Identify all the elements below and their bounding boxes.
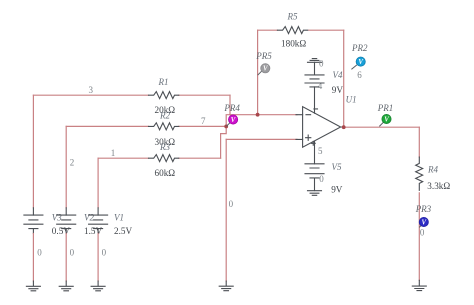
svg-text:2.5V: 2.5V: [114, 226, 132, 236]
svg-text:3: 3: [89, 85, 94, 95]
ground right: [412, 280, 426, 290]
ground V1: [91, 281, 105, 291]
svg-text:5: 5: [318, 146, 323, 156]
wire net3 vertical to V3: [32, 95, 34, 208]
op-amp U1: [296, 87, 344, 164]
ground above V4 (inverted): [308, 59, 322, 63]
svg-text:PR4: PR4: [223, 103, 240, 113]
svg-text:V3: V3: [52, 212, 62, 222]
svg-text:0: 0: [420, 227, 425, 237]
wire net3 drop to inverting line: [229, 95, 231, 115]
resistor R1: [149, 92, 179, 99]
wire V2 to ground: [65, 234, 67, 282]
svg-text:R5: R5: [287, 12, 298, 22]
wire net1 horizontal: [98, 157, 221, 159]
svg-text:0: 0: [319, 174, 324, 184]
wire inverting input line: [230, 114, 297, 116]
feedback right vertical: [343, 30, 345, 127]
battery V1: [97, 208, 99, 234]
svg-text:PR2: PR2: [351, 43, 368, 53]
svg-text:0: 0: [319, 59, 324, 69]
probe PR1: [380, 114, 391, 126]
svg-text:U1: U1: [346, 95, 357, 105]
resistor R3: [149, 155, 179, 162]
ground V2: [59, 281, 73, 291]
svg-text:9V: 9V: [331, 185, 343, 195]
wire V3 to ground: [32, 234, 34, 282]
svg-text:R1: R1: [158, 77, 169, 87]
probe PR2: [352, 57, 366, 69]
wire step from R3 up to summing junction: [221, 126, 227, 158]
svg-text:0: 0: [229, 199, 234, 209]
svg-text:PR3: PR3: [415, 204, 432, 214]
svg-text:V5: V5: [332, 162, 342, 172]
battery V4: [305, 62, 324, 87]
battery V5: [305, 164, 324, 191]
svg-text:V1: V1: [114, 212, 124, 222]
wire non-inverting drop to ground: [225, 139, 227, 281]
junction summing node: [224, 125, 228, 129]
probe PR3: [419, 217, 428, 227]
wire net2 horizontal: [66, 125, 226, 127]
svg-text:1.5V: 1.5V: [84, 226, 102, 236]
svg-text:R2: R2: [159, 110, 170, 120]
svg-text:PR5: PR5: [255, 51, 272, 61]
svg-text:0: 0: [102, 248, 107, 258]
resistor R5: [277, 27, 307, 34]
resistor R4 vertical: [416, 157, 423, 190]
svg-text:7: 7: [201, 116, 206, 126]
probe PR5: [258, 64, 270, 75]
wire output drop right: [418, 127, 420, 280]
svg-text:180kΩ: 180kΩ: [281, 39, 306, 49]
probe PR4: [227, 115, 238, 126]
svg-text:V2: V2: [84, 212, 94, 222]
ground mid: [219, 281, 233, 291]
ground below V5: [308, 191, 322, 196]
ground V3: [26, 281, 40, 291]
wire net2 vertical to V2: [65, 126, 67, 207]
svg-text:2: 2: [70, 158, 75, 168]
svg-text:0.5V: 0.5V: [52, 226, 70, 236]
feedback top wire: [258, 29, 344, 31]
svg-text:R4: R4: [427, 165, 438, 175]
svg-text:60kΩ: 60kΩ: [155, 168, 176, 178]
svg-text:V: V: [358, 59, 363, 66]
svg-text:6: 6: [357, 70, 362, 80]
svg-text:9V: 9V: [332, 85, 344, 95]
svg-text:0: 0: [70, 248, 75, 258]
wire output: [344, 126, 420, 128]
wire non-inverting input line: [226, 138, 297, 140]
feedback R5 loop: left vertical: [257, 30, 259, 115]
svg-text:R3: R3: [159, 142, 170, 152]
battery V2: [65, 208, 67, 234]
svg-text:1: 1: [111, 148, 116, 158]
junction output node: [342, 125, 346, 129]
svg-text:V4: V4: [333, 70, 343, 80]
svg-text:V: V: [422, 219, 427, 226]
svg-text:PR1: PR1: [377, 103, 394, 113]
wire net3 horizontal top-left: [33, 94, 230, 96]
battery V3: [32, 208, 34, 234]
resistor R2: [149, 123, 179, 130]
junction feedback-inverting: [256, 113, 260, 117]
wire V1 to ground: [97, 234, 99, 282]
svg-text:V: V: [263, 66, 268, 73]
svg-text:0: 0: [37, 248, 42, 258]
svg-text:3.3kΩ: 3.3kΩ: [427, 181, 450, 191]
svg-text:V: V: [384, 116, 389, 123]
svg-text:V: V: [231, 117, 236, 124]
wire summing riser to inverting input line: [226, 115, 230, 127]
wire net1 vertical to V1: [97, 158, 99, 208]
